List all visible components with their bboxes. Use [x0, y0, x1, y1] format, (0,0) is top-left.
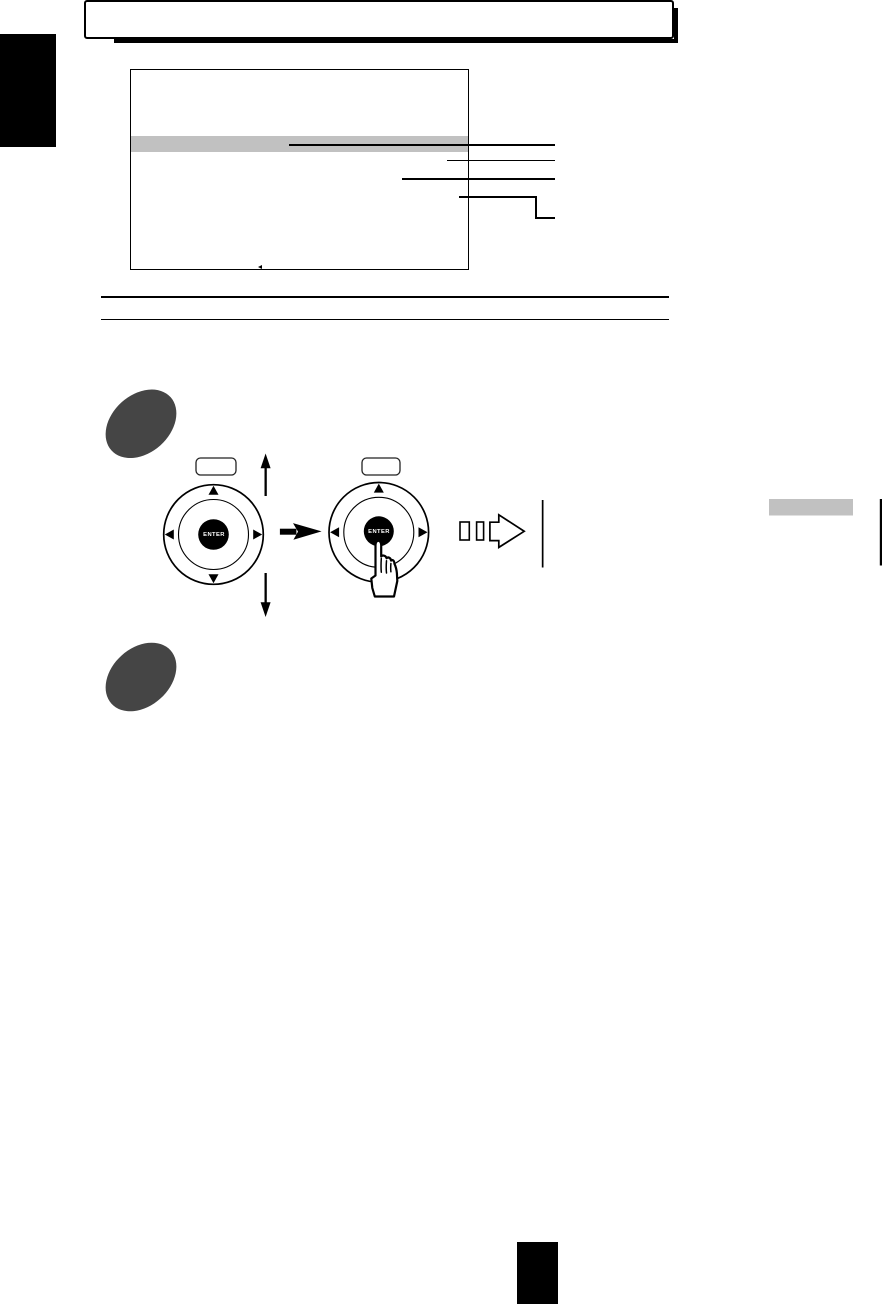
continue symbol bar 2 — [477, 522, 484, 540]
left pad right triangle — [253, 530, 262, 540]
separator vertical line — [542, 500, 544, 568]
pressing hand — [371, 541, 397, 597]
title bar shadow right — [674, 8, 679, 43]
left pad ENTER button — [198, 519, 229, 550]
right pad right triangle — [419, 527, 428, 537]
right pad button above — [362, 458, 400, 475]
step marker ellipse 2 — [92, 629, 190, 725]
down arrow — [265, 573, 267, 603]
left pad outer circle — [164, 485, 264, 585]
leader line 3 — [402, 178, 555, 180]
up arrow — [265, 466, 267, 496]
title bar shadow bottom — [114, 39, 678, 44]
leader line 2 — [447, 160, 555, 162]
right gray tab — [769, 499, 853, 516]
leader line 4 lower horizontal — [535, 217, 555, 219]
bottom page number box — [517, 1242, 558, 1304]
right pad inner circle — [344, 497, 414, 567]
menu highlight bar — [131, 136, 468, 153]
title bar box — [84, 0, 674, 39]
leader line 1 — [289, 144, 555, 146]
right pad ENTER label — [359, 529, 399, 535]
menu cursor triangle — [258, 265, 262, 269]
left pad down triangle — [209, 574, 219, 583]
left pad inner circle — [179, 500, 249, 570]
leader line 4 horizontal — [459, 196, 538, 198]
continue open arrow — [490, 515, 524, 548]
left edge black tab — [0, 34, 56, 147]
right pad ENTER button — [364, 516, 394, 546]
left pad left triangle — [165, 530, 174, 540]
menu screen box — [130, 69, 469, 270]
thick right arrow — [293, 523, 322, 540]
leader line 4 vertical drop — [535, 196, 537, 218]
horizontal rule 1 — [101, 296, 669, 298]
left pad up triangle — [209, 486, 219, 495]
left pad button above — [196, 458, 236, 475]
hand finger separation lines — [381, 559, 391, 574]
step marker ellipse 1 — [92, 376, 190, 472]
right pad outer circle — [329, 483, 429, 583]
continue symbol bar 1 — [460, 522, 469, 540]
horizontal rule 2 — [101, 319, 669, 321]
right pad left triangle — [330, 527, 339, 537]
left pad ENTER label — [194, 532, 234, 538]
right pad up triangle — [374, 484, 384, 493]
right edge black bar — [880, 499, 882, 566]
